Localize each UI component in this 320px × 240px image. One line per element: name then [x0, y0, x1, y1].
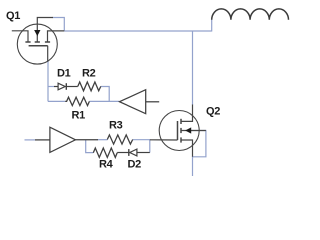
svg-text:Q1: Q1	[6, 10, 20, 22]
svg-text:D1: D1	[57, 68, 71, 80]
svg-text:D2: D2	[128, 159, 142, 171]
svg-text:R3: R3	[109, 120, 123, 132]
svg-text:R1: R1	[72, 110, 86, 122]
svg-text:R4: R4	[99, 159, 114, 171]
svg-text:Q2: Q2	[206, 106, 220, 118]
svg-text:R2: R2	[82, 68, 96, 80]
